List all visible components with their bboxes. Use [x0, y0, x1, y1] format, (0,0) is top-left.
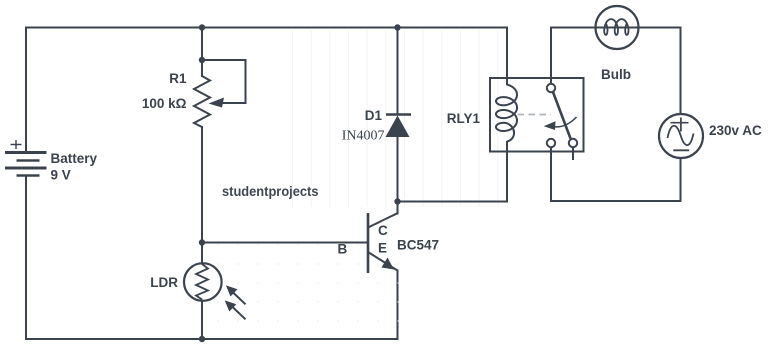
wire base — [202, 242, 368, 244]
transistor collector lead — [368, 213, 398, 227]
resistor R1 zigzag — [194, 76, 210, 127]
svg-text:9 V: 9 V — [51, 168, 71, 183]
LDR zigzag — [196, 264, 208, 300]
node dot bottom rail — [199, 336, 205, 342]
relay RLY1 box — [490, 78, 584, 152]
node dot collector — [394, 198, 400, 204]
transistor emitter lead — [368, 252, 398, 271]
svg-text:Bulb: Bulb — [601, 67, 631, 82]
svg-text:RLY1: RLY1 — [447, 111, 481, 126]
bulb filament — [604, 19, 628, 35]
R1 wiper loop wire — [202, 60, 246, 103]
svg-text:230v AC: 230v AC — [709, 123, 762, 138]
switch contact NO — [547, 139, 555, 147]
relay dashed link — [518, 114, 552, 116]
battery BT1 plates — [5, 153, 47, 176]
svg-text:100 kΩ: 100 kΩ — [142, 96, 187, 111]
transistor emitter arrowhead — [382, 258, 395, 270]
wire R1 top — [201, 28, 203, 77]
switch blade — [553, 92, 571, 139]
svg-text:LDR: LDR — [150, 275, 178, 290]
LDR light arrow 2 — [231, 306, 246, 320]
svg-text:E: E — [378, 241, 387, 256]
AC sine — [668, 126, 694, 145]
diode D1 triangle — [386, 116, 410, 138]
node dot R1 wiper tap — [199, 57, 205, 63]
bulb circle — [596, 6, 639, 49]
node dot base — [199, 239, 205, 245]
svg-text:D1: D1 — [365, 108, 383, 123]
wire AC bottom rail — [551, 147, 681, 201]
node dot R1 top rail — [199, 24, 205, 30]
faint dot grid — [218, 245, 398, 321]
transistor Q1 base bar — [367, 213, 370, 273]
relay actuation arrow — [552, 117, 577, 127]
svg-text:IN4007: IN4007 — [342, 129, 385, 144]
wire left rail top — [26, 28, 507, 153]
node dot D1 top — [394, 24, 400, 30]
switch contact NC — [569, 139, 577, 147]
AC minus — [673, 149, 689, 151]
battery plus sign — [11, 140, 22, 149]
wire D1 bottom — [397, 137, 399, 202]
wire coil bottom to collector node — [398, 142, 508, 202]
wire LDR bottom — [201, 301, 203, 340]
faint canvas grid — [293, 30, 498, 207]
AC plus — [671, 118, 689, 132]
svg-text:C: C — [378, 223, 388, 238]
AC source circle — [659, 114, 703, 158]
bulb wire through — [596, 27, 639, 29]
wire emitter down — [397, 271, 399, 340]
svg-text:R1: R1 — [169, 71, 187, 86]
switch pivot — [547, 84, 555, 92]
wire switch common up — [551, 28, 596, 85]
R1 wiper arrowhead — [209, 98, 225, 108]
LDR light arrow 1 — [232, 292, 246, 305]
wire left rail bottom — [26, 176, 398, 339]
svg-text:B: B — [338, 242, 348, 257]
wire NC stub — [572, 147, 574, 159]
wire D1 top — [397, 28, 399, 115]
svg-text:studentprojects: studentprojects — [222, 184, 319, 199]
wire R1 bottom to base node — [201, 127, 203, 264]
diode D1 cathode bar — [386, 113, 411, 116]
relay coil — [496, 85, 517, 142]
svg-text:BC547: BC547 — [397, 238, 439, 253]
wire bulb right to AC source — [639, 28, 681, 115]
wire collector stub — [397, 202, 399, 214]
svg-text:Battery: Battery — [51, 151, 98, 166]
LDR circle — [184, 263, 222, 301]
